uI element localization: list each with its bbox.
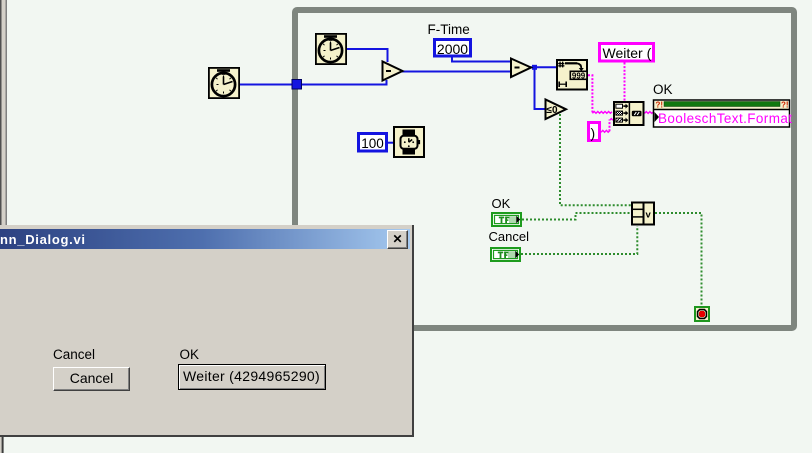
- concat format node: [614, 102, 644, 125]
- F-Time label: [428, 22, 470, 37]
- svg-text:999: 999: [572, 71, 586, 80]
- magenta wire concat to property node: [645, 112, 654, 114]
- wire 100 constant to wait icon: [388, 142, 394, 144]
- green wire leq0 to Or node: [560, 114, 631, 205]
- svg-text:≤0: ≤0: [547, 105, 558, 116]
- Cancel field label: [53, 347, 95, 362]
- magenta wire close-paren constant to concat: [601, 119, 613, 133]
- while loop border: [295, 10, 794, 328]
- green wire Cancel terminal to Or node: [521, 226, 637, 254]
- clock2 tick count icon: [316, 34, 346, 64]
- OK label for TF terminal: [492, 196, 511, 211]
- wire junction down to less-equal-zero: [535, 67, 546, 109]
- Cancel push button: [53, 367, 130, 391]
- close-paren string constant: [589, 123, 600, 142]
- svg-text:F-Time: F-Time: [428, 22, 470, 37]
- dialog close button: [387, 230, 408, 249]
- wire subtract1 output to subtract2: [402, 71, 511, 73]
- OK push button (default): [178, 364, 326, 390]
- wire 2000 constant to subtract2 upper input: [452, 57, 511, 62]
- subtract1 triangle: [383, 62, 403, 81]
- svg-text:OK: OK: [653, 82, 673, 97]
- subtract2 triangle: [511, 59, 531, 78]
- svg-text:2000: 2000: [437, 41, 468, 57]
- wire clock2 to subtract1 upper input: [347, 49, 388, 62]
- clock1 tick count icon: [209, 68, 239, 98]
- dialog title text: [0, 232, 86, 247]
- dialog window: [0, 225, 414, 437]
- wait until next ms multiple watch icon: [394, 127, 424, 157]
- svg-text:?!: ?!: [781, 101, 789, 110]
- svg-text:v: v: [646, 210, 652, 221]
- 100 numeric constant: [359, 134, 387, 152]
- node999 format value icon: [557, 60, 587, 90]
- dialog title bar: [0, 229, 410, 249]
- svg-text:BooleschText.Format: BooleschText.Format: [658, 111, 792, 126]
- tunnel on loop border: [292, 80, 302, 90]
- green wire Or node to stop terminal: [655, 213, 702, 305]
- svg-text:100: 100: [361, 136, 384, 151]
- magenta wire Weiter constant to concat: [624, 63, 626, 102]
- Cancel label: [489, 229, 530, 244]
- Cancel boolean TF terminal: [491, 248, 520, 261]
- OK label for property node: [653, 82, 673, 97]
- wire subtract2 output to node999: [530, 66, 556, 68]
- Weiter string constant: [600, 44, 654, 62]
- svg-text:): ): [591, 125, 596, 141]
- green wire OK terminal to Or node: [522, 213, 631, 220]
- 2000 numeric constant: [435, 40, 471, 58]
- OK field label: [180, 347, 200, 362]
- left window edge strip: [0, 0, 7, 453]
- less-equal-zero comparison triangle: [546, 100, 567, 120]
- property node BooleschText.Format: [654, 100, 793, 127]
- stop terminal: [695, 307, 709, 321]
- magenta wire node999 to concat: [588, 75, 612, 113]
- Or compound node: [632, 203, 654, 225]
- OK boolean TF terminal: [492, 213, 521, 226]
- svg-text:OK: OK: [492, 196, 511, 211]
- junction node dot: [532, 65, 537, 70]
- svg-text:?!: ?!: [656, 101, 664, 110]
- svg-text:Weiter (: Weiter (: [603, 45, 652, 61]
- wire clock1 to tunnel to subtract1 lower input: [240, 80, 387, 85]
- svg-text:Cancel: Cancel: [489, 229, 530, 244]
